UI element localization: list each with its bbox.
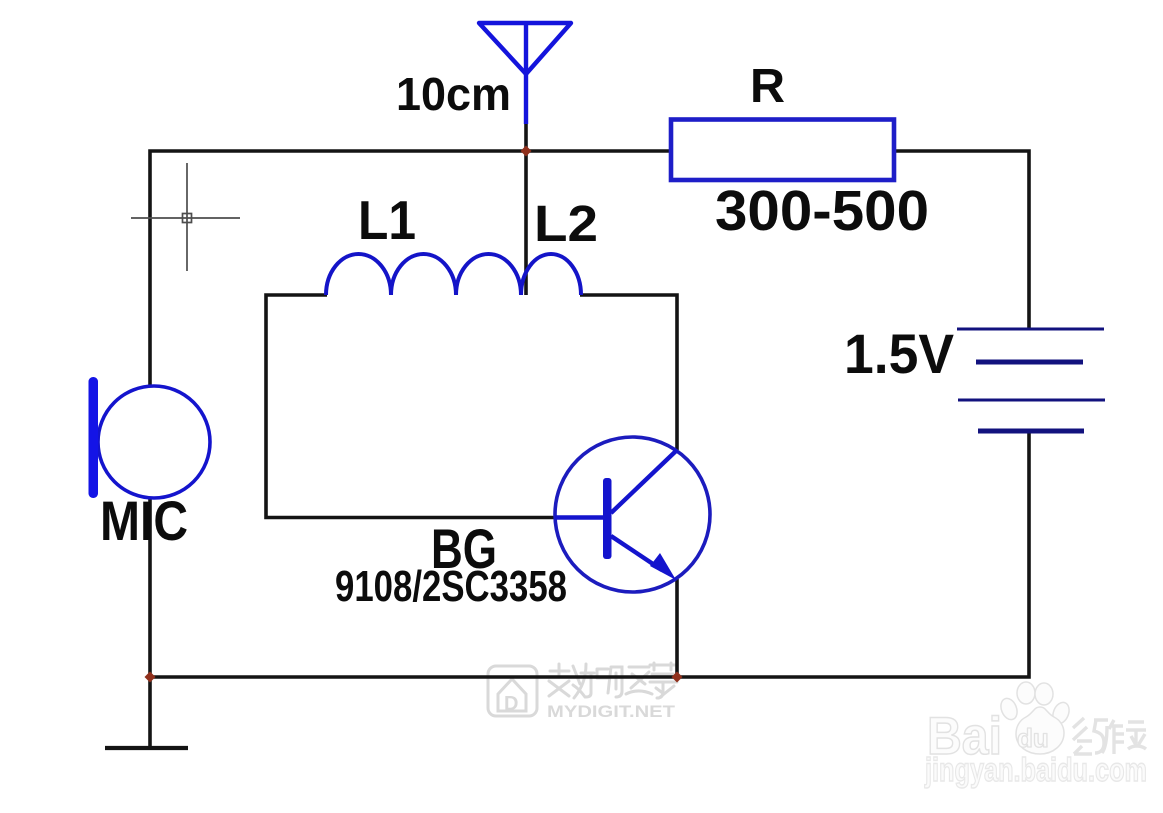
transistor BG circle: [555, 437, 710, 592]
transistor base bar: [603, 478, 612, 559]
microphone MIC circle: [98, 386, 210, 498]
battery B1 plates: [957, 329, 1105, 431]
antenna: [479, 21, 571, 124]
watermark mydigit logo: [488, 666, 537, 716]
crosshair cursor: [131, 163, 240, 271]
transistor collector lead: [611, 450, 677, 513]
wire right rail below battery and bottom rail: [150, 431, 1029, 677]
watermark baidu paw: [998, 682, 1072, 754]
wire left rail and top rail to resistor: [150, 151, 671, 746]
ground: [105, 746, 188, 750]
junction dot bottom left: [145, 672, 156, 683]
svg-text:D: D: [504, 693, 518, 715]
watermark hanzi shuma zhijia: [549, 663, 677, 698]
svg-text:du: du: [1017, 723, 1049, 753]
svg-text:L2: L2: [534, 195, 598, 252]
svg-text:R: R: [750, 59, 785, 113]
svg-text:1.5V: 1.5V: [844, 322, 954, 385]
inductor L1 L2 coil: [326, 254, 581, 295]
svg-text:L1: L1: [358, 189, 416, 251]
junction dot antenna: [521, 146, 532, 157]
wire emitter to bottom rail: [675, 579, 679, 677]
wire top rail resistor to right rail: [894, 151, 1029, 329]
svg-text:10cm: 10cm: [396, 68, 511, 120]
wire coil left side to transistor base: [266, 295, 557, 518]
wire coil right side to collector: [580, 295, 677, 450]
svg-text:MIC: MIC: [100, 489, 188, 552]
svg-text:9108/2SC3358: 9108/2SC3358: [335, 562, 567, 611]
svg-text:300-500: 300-500: [715, 179, 929, 243]
resistor R: [671, 120, 894, 181]
svg-text:jingyan.baidu.com: jingyan.baidu.com: [924, 751, 1147, 788]
wire antenna stem to coil tap: [524, 124, 528, 295]
watermark baidu jingyan hanzi: [1073, 718, 1146, 754]
junction dot bottom emitter: [672, 672, 683, 683]
microphone MIC bar: [89, 377, 99, 498]
transistor emitter arrow: [650, 553, 676, 580]
transistor emitter lead: [611, 536, 662, 570]
transistor base lead: [555, 515, 603, 519]
svg-text:MYDIGIT.NET: MYDIGIT.NET: [547, 702, 676, 721]
